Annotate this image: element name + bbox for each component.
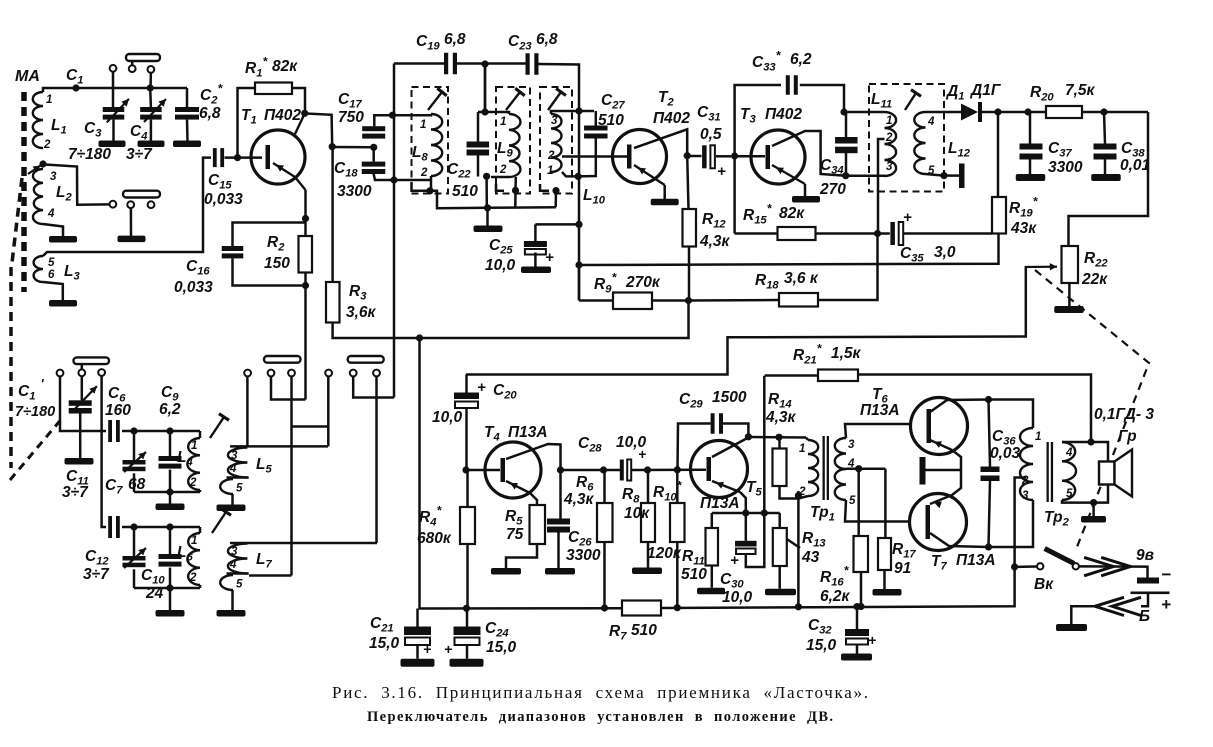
- svg-text:6,8: 6,8: [536, 31, 558, 48]
- wire L12 bottom to chassis: [944, 174, 959, 177]
- label 3÷7 (C4 value): [126, 146, 153, 163]
- ground bar under R13: [765, 589, 796, 596]
- svg-text:5: 5: [236, 483, 243, 495]
- R4 leads: [466, 470, 469, 608]
- label C10: [141, 567, 165, 587]
- resistor R2: [299, 236, 313, 273]
- coil L5 upper section: [228, 448, 248, 478]
- L10 bottom contact dot: [552, 187, 559, 207]
- junction dot C17-C18: [370, 144, 377, 151]
- svg-text:6,2: 6,2: [159, 401, 181, 418]
- C30 stems: [746, 376, 765, 567]
- S1a contact 1: [110, 65, 117, 72]
- label C24 15,0: [485, 620, 517, 656]
- L10 tap wire to T2 base: [562, 155, 629, 158]
- wire C19 left: [394, 64, 444, 116]
- label C7: [105, 477, 123, 497]
- svg-text:5: 5: [849, 495, 856, 507]
- svg-text:3300: 3300: [566, 547, 601, 564]
- label R19* 43k: [1009, 195, 1039, 238]
- junction dot R6 bottom bus: [601, 604, 608, 611]
- S1d contact1 stem to L5: [246, 376, 249, 447]
- label C37: [1048, 140, 1072, 160]
- ground bar T3 emitter: [792, 196, 820, 203]
- C38 stems: [1104, 112, 1105, 175]
- Tp1 pin 5: [849, 495, 856, 507]
- supply bus right segment: [661, 567, 1015, 608]
- junction dot R8 top: [644, 466, 651, 473]
- junction dot detector output: [994, 108, 1001, 115]
- L3 bottom lead: [43, 282, 63, 300]
- label C1': [18, 376, 45, 403]
- L10 pin 2: [547, 150, 555, 162]
- svg-text:Гр: Гр: [1118, 428, 1137, 445]
- wire connector to ground: [1071, 606, 1095, 624]
- capacitor C20 (electrolytic): [454, 393, 479, 409]
- speaker Gr (0.1GD-3): [1099, 450, 1132, 497]
- S1d contact 1: [244, 370, 251, 377]
- S1c contact 2: [78, 369, 85, 376]
- label 15,0 (C32 value): [806, 637, 837, 654]
- label Tp1: [810, 504, 835, 524]
- ground bar under R8: [632, 568, 662, 575]
- label L4: [177, 449, 193, 469]
- label 68 (C7 value): [128, 476, 146, 493]
- capacitor C33: [786, 75, 798, 95]
- label C32: [808, 617, 832, 637]
- svg-text:+: +: [1161, 595, 1171, 614]
- caption line 1: [332, 683, 868, 702]
- label C33* 6,2: [752, 49, 812, 74]
- svg-text:120к: 120к: [647, 545, 682, 562]
- svg-text:15,0: 15,0: [369, 635, 400, 652]
- junction dot at C4 top: [147, 84, 154, 91]
- label 10k (R8 value): [624, 505, 650, 522]
- Tp1 primary top lead: [806, 438, 808, 441]
- junction dot L10 top rail: [575, 107, 582, 114]
- speaker ground stem: [1092, 503, 1095, 516]
- junction dot at R3 top node: [329, 143, 336, 150]
- svg-text:3: 3: [231, 546, 238, 558]
- svg-text:6,8: 6,8: [199, 105, 221, 122]
- ground bar under C2: [173, 141, 201, 148]
- label 10,0 (C25 value): [485, 257, 516, 274]
- IF transformer can L9 (dashed box): [496, 87, 530, 194]
- svg-text:3,6к: 3,6к: [346, 304, 377, 321]
- resistor R16: [854, 536, 869, 572]
- junction dot supply-switch: [1011, 563, 1018, 570]
- coil L11: [885, 112, 897, 176]
- Tp2 pin 1: [1035, 431, 1041, 443]
- svg-text:4,3к: 4,3к: [699, 233, 731, 250]
- L9 top lead: [478, 112, 509, 114]
- supply bus left segment: [420, 338, 623, 609]
- label 10,0 (C20 value): [432, 409, 463, 426]
- resistor R18: [779, 293, 818, 307]
- wire S1d to L7 pin5: [249, 574, 292, 577]
- Tp1 pin 2: [798, 486, 806, 498]
- svg-text:0,01: 0,01: [1120, 157, 1150, 174]
- variable capacitor C1' (tuning gang): [69, 400, 92, 413]
- label R11: [682, 548, 705, 568]
- svg-text:3÷7: 3÷7: [126, 146, 153, 163]
- label C2*: [200, 82, 223, 107]
- wire C34 bottom to L11: [846, 174, 885, 177]
- wire R20 node to volume pot: [1069, 112, 1149, 246]
- label 3300 (C37 value): [1048, 159, 1083, 176]
- svg-text:43к: 43к: [1010, 220, 1037, 237]
- label 150 (R2 value): [264, 255, 290, 272]
- label plus battery: [1161, 595, 1171, 614]
- C31 plus sign: [717, 163, 726, 180]
- svg-text:5: 5: [236, 579, 243, 591]
- L11 pin 3: [886, 161, 893, 173]
- junction dot C18-L8 bus: [390, 176, 397, 183]
- svg-text:510: 510: [598, 112, 624, 129]
- capacitor C38: [1094, 144, 1117, 160]
- C25 plus sign: [545, 249, 554, 266]
- label B (battery): [1139, 608, 1150, 625]
- junction dot T4 base node: [462, 466, 469, 473]
- label C29 1500: [679, 389, 747, 411]
- svg-text:7÷180: 7÷180: [68, 146, 111, 163]
- svg-text:4: 4: [229, 463, 237, 475]
- label R20 7,5k: [1030, 82, 1096, 104]
- L8 shield stub: [412, 182, 489, 208]
- label R7 510: [609, 622, 657, 643]
- C21 stems: [416, 609, 419, 659]
- R22 bottom lead: [1068, 283, 1071, 307]
- wire R20 right: [1082, 111, 1148, 114]
- junction dot C9 top: [166, 427, 173, 434]
- wire L1 top to antenna bus: [43, 88, 187, 92]
- svg-text:22к: 22к: [1081, 271, 1108, 288]
- coil L6: [187, 533, 200, 585]
- capacitor C7: [108, 516, 120, 538]
- ground bar under C38: [1091, 174, 1121, 181]
- label C22: [447, 161, 471, 181]
- junction dot R16-bus: [857, 603, 864, 610]
- label R15* 82k: [743, 202, 805, 227]
- L7 bottom stem: [231, 590, 234, 610]
- junction dot feedback-emitter: [761, 509, 768, 516]
- wire collector node to Tp1: [748, 436, 806, 439]
- Tp1 pin 4: [847, 458, 855, 470]
- L3 pin 6: [48, 269, 55, 281]
- label 0,01 (C38 value): [1120, 157, 1150, 174]
- wire T3 base down to R15: [733, 156, 736, 234]
- svg-text:3: 3: [50, 171, 57, 183]
- C30 plus sign: [730, 552, 739, 569]
- rail ground stem L6: [169, 588, 172, 610]
- junction dot feedback tap: [1087, 438, 1094, 445]
- S1b contact 2: [127, 201, 134, 208]
- svg-text:0,033: 0,033: [204, 191, 243, 208]
- svg-text:15,0: 15,0: [486, 639, 517, 656]
- svg-text:6,8: 6,8: [444, 31, 466, 48]
- C4 arrow: [144, 99, 166, 122]
- band switch S1d bar: [264, 356, 301, 363]
- svg-text:3: 3: [551, 115, 558, 127]
- L7 pin 5: [236, 579, 243, 591]
- svg-text:0,03: 0,03: [990, 445, 1021, 462]
- junction dot T4 collector node: [557, 466, 564, 473]
- bridge wire S1d-S1e: [292, 425, 329, 428]
- wire R2 leads: [304, 219, 307, 287]
- label C23 6,8: [508, 31, 558, 53]
- L5 bottom stem: [231, 494, 234, 505]
- L3 pin 5: [48, 257, 55, 269]
- label T6: [872, 386, 888, 406]
- L10 pin 1: [547, 165, 553, 177]
- R5 bottom lead: [506, 544, 537, 568]
- rail ground stem: [169, 492, 172, 504]
- svg-text:2: 2: [420, 167, 428, 179]
- coil L8: [431, 114, 442, 176]
- junction dot R10 top: [674, 466, 681, 473]
- label C15: [208, 172, 232, 192]
- label 3300 (C18 value): [337, 183, 372, 200]
- svg-text:−: −: [1161, 565, 1171, 584]
- junction dot R10 bottom bus: [674, 604, 681, 611]
- L7 tap bar: [227, 572, 249, 575]
- S1d contact 2: [268, 370, 275, 377]
- ground bar under L2: [49, 236, 77, 243]
- oscillator bus down to S1e: [393, 115, 396, 397]
- T4 emitter line: [506, 481, 537, 505]
- capacitor C19: [444, 53, 457, 75]
- ground bar under L7: [217, 610, 246, 617]
- wire collector to C28: [561, 469, 621, 472]
- ground bar under C10 rail: [156, 610, 185, 617]
- T6 emitter line: [930, 440, 961, 470]
- C37 stems: [1029, 112, 1032, 175]
- label L10: [583, 187, 606, 207]
- ground bar T2 emitter: [651, 199, 679, 206]
- label C35 3,0: [900, 244, 956, 265]
- resistor R22 (volume): [1062, 246, 1079, 283]
- band switch S1b bar: [123, 191, 160, 198]
- Tp2 core: [1047, 442, 1054, 502]
- T7 emitter line: [930, 470, 961, 508]
- label R3: [349, 283, 367, 303]
- R6 leads: [603, 470, 606, 608]
- ground bar under C21: [401, 659, 435, 667]
- resistor R11: [706, 528, 719, 566]
- capacitor C28 (electrolytic): [620, 460, 631, 481]
- label L3: [64, 263, 80, 283]
- resistor R12: [683, 209, 697, 247]
- svg-text:6: 6: [48, 269, 55, 281]
- label 10,0 (C30 value): [722, 589, 753, 606]
- label C36: [992, 428, 1016, 448]
- junction dot C30 top: [742, 509, 749, 516]
- C21 plus sign: [423, 641, 431, 657]
- C35 wires: [878, 232, 993, 235]
- junction dot AGC bus left: [575, 261, 582, 268]
- wire C15 to T1 base: [225, 156, 263, 159]
- junction dot C34 bottom: [842, 172, 849, 179]
- capacitor C21 (electrolytic): [404, 627, 431, 646]
- C17 top stem to oscillator bus: [374, 115, 393, 126]
- svg-text:7,5к: 7,5к: [1065, 82, 1096, 99]
- L8 bottom lead: [430, 176, 433, 180]
- C24 stems: [466, 608, 469, 658]
- wire S1c contact3 down to C7 bus: [102, 376, 106, 527]
- C11 arrow: [124, 452, 146, 472]
- junction dot rail: [166, 488, 173, 495]
- junction dot L10 bottom: [575, 173, 582, 180]
- svg-text:6,2: 6,2: [790, 51, 812, 68]
- Tp1 primary bottom lead: [798, 496, 808, 499]
- S1a contact 2: [129, 65, 136, 72]
- connector chevrons to battery (male): [1079, 557, 1130, 575]
- coil L7 lower section: [220, 575, 233, 590]
- ground bar under S1b: [118, 236, 146, 243]
- mechanical link dashes R22 to Vk: [1035, 270, 1149, 549]
- label Gr: [1118, 428, 1137, 445]
- Tp2 secondary winding: [1062, 442, 1076, 500]
- label C34: [820, 157, 844, 177]
- capacitor C30 (electrolytic): [735, 541, 757, 554]
- C3 bottom stem: [112, 120, 115, 141]
- label C11: [66, 468, 89, 488]
- resistor R6: [597, 503, 613, 542]
- svg-text:+: +: [444, 641, 452, 657]
- label 0,1GD-3: [1094, 406, 1154, 423]
- L11 pin 2: [885, 132, 893, 144]
- C28 plus sign: [638, 446, 646, 462]
- L5 pin 3: [231, 450, 238, 462]
- L4 top lead: [199, 431, 202, 438]
- C20 plus sign: [477, 379, 486, 396]
- svg-text:1500: 1500: [712, 389, 747, 406]
- label C30: [720, 571, 744, 591]
- svg-text:1: 1: [420, 119, 426, 131]
- S1b contact 1: [110, 201, 117, 208]
- svg-text:10к: 10к: [624, 505, 650, 522]
- label C26: [568, 529, 592, 549]
- C20 stems: [465, 375, 468, 471]
- wire C19 to C23: [457, 62, 526, 65]
- label 7÷180 (C1' value): [15, 404, 55, 420]
- wire rail to bus: [485, 176, 488, 208]
- label L2: [56, 184, 72, 204]
- label L8: [412, 144, 428, 164]
- connector chevrons battery return (female): [1095, 597, 1141, 615]
- junction dot C11 top: [130, 427, 137, 434]
- diode D1 (D1G): [959, 102, 982, 122]
- C34 stems: [845, 112, 848, 176]
- L11 pin 1: [886, 115, 892, 127]
- label L1: [51, 117, 67, 137]
- L9 can shield stub: [496, 184, 504, 191]
- L8 pin 1: [420, 119, 426, 131]
- svg-text:П13А: П13А: [700, 495, 740, 512]
- svg-text:3: 3: [1022, 490, 1029, 502]
- junction dot C25 rail: [575, 221, 582, 228]
- svg-text:Д1Г: Д1Г: [969, 82, 1002, 99]
- wire battery plus to connector: [1141, 594, 1148, 606]
- junction dot T2 collector node: [684, 152, 691, 159]
- label C6: [108, 385, 126, 405]
- svg-text:82к: 82к: [779, 205, 805, 222]
- svg-text:3÷7: 3÷7: [83, 566, 110, 583]
- coil L3: [34, 256, 43, 282]
- C2 bottom stem: [186, 120, 189, 141]
- label D1 D1G: [945, 82, 1002, 103]
- S1e contact 2: [350, 370, 357, 377]
- label L12: [948, 140, 971, 160]
- resistor R15: [778, 227, 816, 240]
- svg-text:510: 510: [681, 566, 707, 583]
- S1e contact 3: [373, 370, 380, 377]
- label L5: [256, 456, 272, 476]
- L12 bottom lead: [926, 174, 945, 176]
- svg-text:4,3к: 4,3к: [765, 409, 797, 426]
- capacitor C6: [108, 420, 120, 442]
- svg-text:10,0: 10,0: [722, 589, 753, 606]
- battery B negative plate: [1137, 578, 1159, 584]
- transistor T5 (P13A): [691, 441, 748, 498]
- wire C33 right: [800, 85, 844, 112]
- svg-text:510: 510: [452, 183, 478, 200]
- junction dot bus-R4: [463, 605, 470, 612]
- label C27: [601, 92, 625, 112]
- svg-text:3,6 к: 3,6 к: [784, 270, 819, 287]
- L2 bottom lead: [43, 224, 63, 236]
- svg-text:4: 4: [1065, 447, 1073, 459]
- node C1 dot: [72, 84, 79, 91]
- label T2: [658, 89, 674, 109]
- svg-text:+: +: [717, 163, 726, 180]
- resistor R4: [460, 507, 475, 544]
- label 270 (C34 value): [819, 181, 846, 198]
- svg-text:43: 43: [801, 549, 820, 566]
- label 750 (C17 value): [338, 109, 364, 126]
- label 510 (R11 value): [681, 566, 707, 583]
- Tp1 secondary pin3 wire to T6 base: [845, 424, 912, 438]
- label R10*: [653, 479, 683, 504]
- R12 leads: [687, 156, 689, 300]
- C12 stems: [133, 527, 136, 588]
- label 4,3k (R12 value): [699, 233, 731, 250]
- svg-text:150: 150: [264, 255, 290, 272]
- S1d link wires: [271, 376, 306, 399]
- T3 collector line: [772, 131, 846, 176]
- speaker wires: [1062, 442, 1108, 503]
- junction dot T6 collector node: [985, 396, 992, 403]
- wire L5 top to S1e: [230, 445, 328, 448]
- L10 can shield stub: [540, 184, 549, 191]
- label 6,2 (C9 value): [159, 401, 181, 418]
- junction dot C38 top: [1100, 108, 1107, 115]
- Tp1 pin 1: [799, 443, 805, 455]
- trimmer C12: [123, 556, 146, 567]
- svg-text:2: 2: [499, 164, 507, 176]
- capacitor C17: [362, 126, 385, 138]
- svg-text:П13А: П13А: [956, 552, 996, 569]
- svg-text:+: +: [423, 641, 431, 657]
- capacitor C16 parallel loop: [222, 223, 306, 286]
- label R6: [576, 474, 594, 494]
- wire R3 bottom bias bus: [333, 300, 689, 338]
- C1' bottom stem: [79, 414, 82, 459]
- L7 pin 4: [229, 559, 237, 571]
- C4 top stem: [149, 88, 152, 107]
- T4 collector line: [506, 444, 561, 519]
- svg-text:Рис. 3.16. Принципиальная с: Рис. 3.16. Принципиальная схема приемник…: [332, 683, 868, 702]
